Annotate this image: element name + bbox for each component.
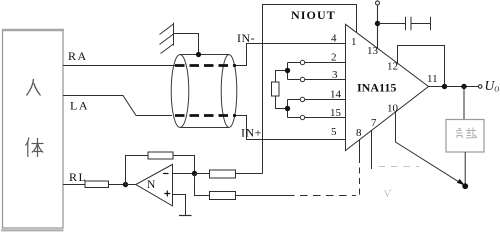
op-amp U1 INA115 triangle	[346, 24, 429, 150]
junction dot minus node	[192, 171, 197, 176]
svg-text:4: 4	[331, 33, 337, 45]
plus input wire	[173, 195, 186, 216]
junction dot upper	[285, 68, 290, 73]
faint V+ dashes	[379, 166, 420, 168]
wire LA from box	[63, 96, 172, 116]
svg-text:11: 11	[427, 73, 438, 85]
feedback wire to minus node	[173, 156, 195, 174]
minus sign	[163, 173, 169, 175]
load box 负载	[446, 120, 484, 153]
capacitor C1	[378, 17, 431, 30]
svg-text:NIOUT: NIOUT	[291, 8, 336, 22]
svg-text:-: -	[390, 185, 393, 194]
pin 2 wire with contact circle	[288, 60, 346, 64]
wire load bottom	[464, 152, 466, 186]
svg-text:13: 13	[367, 45, 379, 57]
wire node to op-amp	[126, 184, 137, 186]
junction dot load branch	[461, 84, 466, 89]
resistor RL	[85, 181, 109, 188]
svg-text:3: 3	[332, 69, 338, 81]
wire pin 10 reference	[396, 112, 464, 185]
junction dot sense	[442, 84, 447, 89]
svg-text:2: 2	[331, 52, 337, 64]
wire IN- riser	[236, 44, 346, 66]
gain net link pins 2-3	[287, 63, 289, 80]
svg-text:10: 10	[387, 103, 399, 115]
svg-text:N: N	[147, 179, 156, 191]
pin 15 wire with contact circle	[288, 115, 346, 119]
junction dot lower	[285, 106, 290, 111]
supply terminal	[376, 1, 380, 49]
svg-text:15: 15	[330, 107, 342, 119]
NIOUT box	[263, 5, 357, 44]
svg-text:LA: LA	[70, 99, 89, 113]
svg-text:14: 14	[330, 89, 342, 101]
svg-text:UO: UO	[485, 78, 500, 94]
junction dot supply	[375, 21, 380, 26]
minus input wire	[173, 173, 195, 175]
svg-text:RA: RA	[68, 49, 88, 63]
sense feedback wire pin 12	[398, 46, 445, 87]
plus sign	[164, 191, 170, 197]
svg-text:7: 7	[371, 117, 377, 129]
wire ground to shield	[174, 34, 199, 55]
wire IN+ riser	[236, 116, 346, 140]
chassis ground (shield)	[160, 23, 174, 54]
svg-text:INA115: INA115	[357, 81, 396, 95]
wire resistor to node	[109, 184, 126, 186]
char 体 (ti)	[26, 138, 44, 158]
feedback resistor	[148, 152, 173, 159]
load text strokes	[456, 128, 477, 139]
svg-text:8: 8	[356, 127, 362, 139]
char 人 (ren)	[27, 79, 41, 96]
vertical bus wire	[262, 44, 264, 174]
dashed link to pin 8	[300, 195, 356, 197]
junction dot RL node	[123, 182, 128, 187]
shield barrel	[171, 55, 237, 128]
averaging resistor upper	[195, 170, 263, 178]
output wire pin 11	[429, 86, 480, 88]
wire RA	[63, 65, 176, 67]
averaging resistor lower	[195, 174, 295, 200]
wire RL from box	[63, 184, 85, 186]
svg-text:IN+: IN+	[241, 126, 262, 140]
gain resistor RG	[272, 71, 288, 109]
svg-text:IN-: IN-	[237, 31, 255, 45]
pin 14 wire with contact circle	[288, 97, 346, 101]
svg-text:12: 12	[387, 61, 398, 73]
pin 3 wire with contact circle	[288, 77, 346, 81]
pin 8 wire dashed	[359, 140, 361, 157]
shielded wire LA (thick dashes)	[175, 114, 236, 117]
output terminal	[478, 85, 482, 89]
wire to load	[463, 87, 465, 120]
human body box	[1, 30, 64, 230]
pin 7 wire	[371, 131, 373, 169]
svg-text:1: 1	[351, 36, 357, 48]
shielded wire RA (thick dashes)	[175, 64, 236, 67]
svg-text:RL: RL	[69, 170, 87, 184]
ground op-amp	[179, 215, 192, 217]
gain net link pins 14-15	[287, 100, 289, 118]
op-amp N triangle	[136, 164, 173, 206]
junction shield dot	[196, 52, 201, 57]
junction arrow	[462, 183, 468, 189]
svg-text:5: 5	[331, 126, 337, 138]
feedback wire up	[126, 156, 149, 185]
